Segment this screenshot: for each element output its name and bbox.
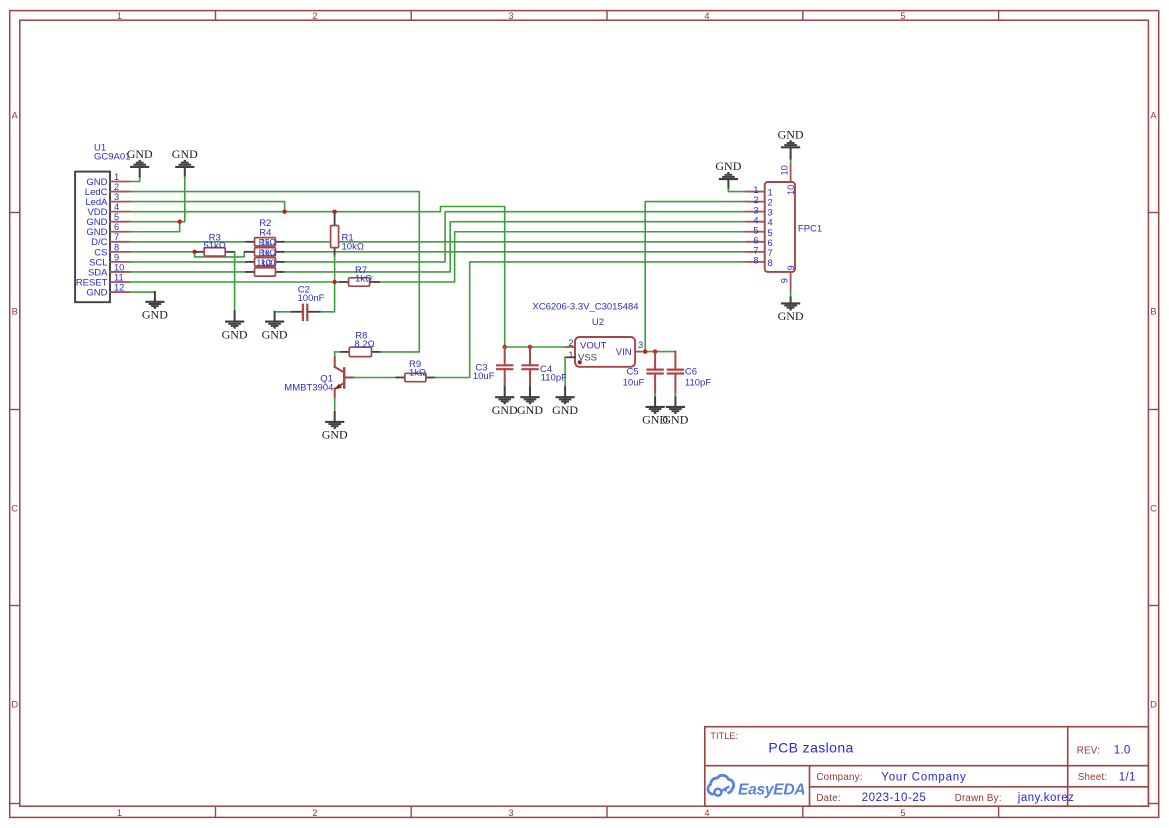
svg-text:GND: GND [492, 403, 518, 417]
junction VIN/C5 [653, 349, 657, 353]
wire CS right to FPC7 [284, 251, 747, 253]
svg-text:GND: GND [262, 327, 288, 341]
wire SDA left (pin10) [130, 271, 247, 273]
svg-text:C: C [1150, 504, 1157, 514]
wire SCL left (pin9) [130, 261, 247, 263]
wire Q1 base to R9 [354, 377, 397, 379]
svg-text:Date:: Date: [816, 793, 840, 804]
svg-text:11: 11 [114, 272, 124, 282]
svg-text:Sheet:: Sheet: [1078, 772, 1108, 783]
op-amp U2 XC6206-3.3V regulator [532, 302, 643, 367]
junction R1/RESET [332, 280, 336, 284]
svg-text:9: 9 [786, 265, 796, 270]
svg-text:GND: GND [778, 309, 804, 323]
svg-text:B: B [1150, 307, 1156, 317]
wire SCL right to FPC3 [284, 212, 747, 262]
svg-text:TITLE:: TITLE: [711, 731, 739, 741]
wire RESET left (pin11) [130, 281, 340, 283]
svg-text:10: 10 [114, 262, 124, 272]
svg-text:1: 1 [117, 11, 122, 21]
svg-text:8: 8 [768, 258, 773, 268]
svg-text:8: 8 [114, 242, 119, 252]
wire C6 to ground [674, 393, 676, 397]
wire VIN to FPC2 [645, 202, 746, 352]
svg-text:1.0: 1.0 [1114, 744, 1131, 756]
wire D/C right to FPC6 [284, 241, 747, 243]
svg-text:GND: GND [778, 127, 804, 141]
svg-text:GND: GND [172, 147, 198, 161]
svg-text:2: 2 [312, 808, 317, 818]
svg-text:5: 5 [900, 808, 905, 818]
ground G2 (U1 pins 5,6) [172, 147, 198, 177]
svg-text:6: 6 [768, 238, 773, 248]
svg-text:110pF: 110pF [541, 373, 567, 384]
capacitor C2 100nF [290, 284, 324, 321]
wire VOUT (U2 pin2 to C3/C4) [505, 346, 566, 348]
svg-text:PCB zaslona: PCB zaslona [768, 740, 853, 756]
svg-text:9: 9 [780, 278, 790, 283]
wire C5 to ground [654, 393, 656, 397]
svg-text:2: 2 [753, 195, 758, 205]
svg-text:7: 7 [114, 232, 119, 242]
wire R3 to ground [234, 252, 236, 312]
svg-text:VIN: VIN [616, 347, 632, 358]
connector U1 GC9A01 [75, 142, 130, 302]
svg-text:1kΩ: 1kΩ [409, 368, 426, 379]
svg-text:4: 4 [768, 218, 773, 228]
ground G9 (C4) [517, 387, 543, 417]
resistor R2 label [259, 218, 271, 229]
resistor R7 1k [340, 265, 380, 286]
connector FPC1 [746, 163, 822, 291]
svg-text:2023-10-25: 2023-10-25 [862, 792, 927, 804]
ground G12 (FPC1 pin1) [715, 159, 741, 189]
resistor series row4 [246, 268, 283, 276]
svg-text:8: 8 [753, 256, 758, 266]
svg-text:Company:: Company: [816, 772, 862, 783]
svg-text:10: 10 [780, 165, 790, 175]
svg-text:C: C [11, 504, 18, 514]
svg-text:GND: GND [517, 403, 543, 417]
svg-text:2: 2 [312, 11, 317, 21]
svg-text:3: 3 [768, 208, 773, 218]
svg-text:3: 3 [753, 205, 758, 215]
svg-text:5: 5 [114, 212, 119, 222]
capacitor C4 110pF [521, 347, 567, 387]
svg-text:jany.korez: jany.korez [1017, 792, 1075, 804]
wire pin1 GND [130, 176, 140, 181]
svg-text:GND: GND [127, 147, 153, 161]
svg-text:100: 100 [261, 257, 276, 267]
svg-text:1: 1 [117, 808, 122, 818]
svg-text:VOUT: VOUT [580, 341, 607, 352]
svg-text:5: 5 [753, 225, 758, 235]
svg-text:51kΩ: 51kΩ [203, 241, 225, 252]
junction VOUT/C3 [503, 345, 507, 349]
junction R1/VDD [332, 209, 336, 213]
svg-text:D: D [1150, 700, 1157, 710]
ground G8 (C3) [492, 387, 518, 417]
svg-text:4: 4 [704, 808, 709, 818]
svg-text:2: 2 [568, 338, 573, 348]
svg-text:1: 1 [568, 350, 573, 360]
wire CS jog to R5 [195, 252, 247, 257]
svg-text:3: 3 [508, 808, 513, 818]
ground G11 (C6) [662, 397, 688, 426]
svg-text:5: 5 [768, 228, 773, 238]
svg-text:1: 1 [114, 172, 119, 182]
wire RESET right to FPC5 [379, 232, 746, 282]
wire FPC pin9 to ground [790, 291, 792, 298]
wire pin6 [130, 222, 180, 232]
svg-text:10uF: 10uF [473, 371, 495, 382]
svg-text:110pF: 110pF [685, 377, 711, 388]
svg-text:REV:: REV: [1077, 745, 1100, 756]
svg-text:GC9A01: GC9A01 [94, 152, 130, 163]
svg-text:10kΩ: 10kΩ [342, 242, 364, 253]
junction LedA/VDD [282, 209, 286, 213]
resistor series row2 [245, 247, 284, 257]
svg-text:5: 5 [900, 11, 905, 21]
wire R9 to FPC8 [435, 262, 747, 378]
resistor R8 8.2ohm [335, 331, 380, 357]
svg-text:GND: GND [715, 159, 741, 173]
svg-text:GND: GND [552, 403, 578, 417]
svg-text:MMBT3904: MMBT3904 [284, 383, 333, 394]
svg-text:D: D [11, 700, 18, 710]
svg-text:EasyEDA: EasyEDA [738, 782, 805, 799]
wire G2 to pin5 junction [180, 176, 185, 221]
ground G14 (FPC pin9) [778, 297, 804, 323]
svg-text:1: 1 [753, 185, 758, 195]
svg-text:8.2Ω: 8.2Ω [354, 339, 374, 350]
wire VDD net (pin4 to VOUT) [130, 207, 505, 348]
wire VIN (U2 pin3 to C5/C6) [642, 351, 675, 353]
svg-text:1kΩ: 1kΩ [355, 273, 372, 284]
ground G6 (Q1) [322, 412, 348, 442]
capacitor C6 110pF [667, 352, 712, 393]
wire D/C left (pin7) [130, 241, 247, 243]
svg-text:10uF: 10uF [623, 377, 645, 388]
EasyEDA logo (decorative) [708, 775, 805, 798]
transistor Q1 MMBT3904 [284, 352, 353, 398]
wire CS left (pin8) [130, 251, 196, 253]
svg-text:A: A [1150, 111, 1157, 121]
svg-text:GND: GND [322, 428, 348, 442]
svg-text:6: 6 [114, 222, 119, 232]
svg-text:XC6206-3.3V_C3015484: XC6206-3.3V_C3015484 [532, 302, 638, 313]
wire FPC pin10 to ground [790, 159, 792, 164]
svg-text:3: 3 [114, 192, 119, 202]
svg-text:Drawn By:: Drawn By: [955, 793, 1002, 804]
resistor R4 label [259, 227, 271, 238]
svg-text:C5: C5 [626, 367, 638, 378]
svg-text:2: 2 [114, 182, 119, 192]
capacitor C5 10uF [623, 352, 664, 393]
svg-text:1kΩ: 1kΩ [260, 237, 276, 247]
wire R1 to RESET and C2 [320, 256, 335, 312]
svg-text:7: 7 [753, 245, 758, 255]
capacitor C3 10uF [473, 347, 514, 387]
wire pin12 GND [130, 291, 155, 293]
svg-text:FPC1: FPC1 [798, 224, 822, 235]
ground G4 (R3) [222, 311, 248, 341]
wire LedC (pin2 to R8) [130, 192, 420, 352]
ground G7 (U2 VSS) [552, 387, 578, 417]
svg-text:GND: GND [222, 327, 248, 341]
svg-text:3: 3 [508, 11, 513, 21]
svg-text:2: 2 [768, 198, 773, 208]
wire Q1 emitter to ground [334, 398, 336, 413]
svg-text:4: 4 [114, 202, 119, 212]
ground G3 (U1 pin12) [142, 292, 168, 322]
resistor R9 1k [396, 359, 435, 382]
svg-text:10: 10 [786, 185, 796, 195]
junction VOUT/C4 [528, 345, 532, 349]
svg-text:6: 6 [753, 235, 758, 245]
svg-text:A: A [12, 111, 19, 121]
svg-text:Your Company: Your Company [881, 771, 966, 783]
ground G13 (FPC pin10) [778, 127, 804, 158]
wire SDA right to FPC4 [284, 222, 747, 272]
resistor series row1 [246, 237, 283, 247]
svg-text:C6: C6 [685, 367, 697, 378]
resistor R3 51k [196, 232, 235, 256]
svg-text:3: 3 [638, 340, 643, 350]
junction VIN column [643, 349, 647, 353]
svg-text:B: B [12, 307, 18, 317]
title block (decorative) [705, 727, 1149, 807]
resistor series row3 [246, 257, 283, 267]
wire C2 left to ground [275, 311, 291, 313]
svg-text:GND: GND [662, 413, 688, 427]
svg-text:12: 12 [114, 282, 124, 292]
svg-text:1: 1 [768, 188, 773, 198]
ground G1 (U1 pin1) [127, 147, 153, 177]
svg-text:4: 4 [753, 215, 758, 225]
junction pins5-6-GND [178, 220, 182, 224]
svg-text:9: 9 [114, 252, 119, 262]
svg-text:GND: GND [142, 308, 168, 322]
svg-text:U2: U2 [592, 317, 604, 328]
junction CS/R3 [192, 250, 196, 254]
svg-text:1kΩ: 1kΩ [260, 247, 276, 257]
svg-text:GND: GND [86, 287, 107, 298]
ground G5 (C2) [262, 312, 288, 342]
ground G10 (C5) [642, 397, 668, 426]
wire G12 to FPC pin1 [728, 189, 746, 192]
resistor R1 10k [331, 212, 364, 256]
wire U2 VSS to ground [564, 357, 566, 387]
svg-text:100nF: 100nF [298, 293, 325, 304]
wire pin5 [130, 221, 180, 223]
svg-text:4: 4 [704, 11, 709, 21]
svg-text:7: 7 [768, 248, 773, 258]
svg-text:1/1: 1/1 [1119, 771, 1136, 783]
wire LedA (pin3 to VDD net) [130, 202, 285, 212]
